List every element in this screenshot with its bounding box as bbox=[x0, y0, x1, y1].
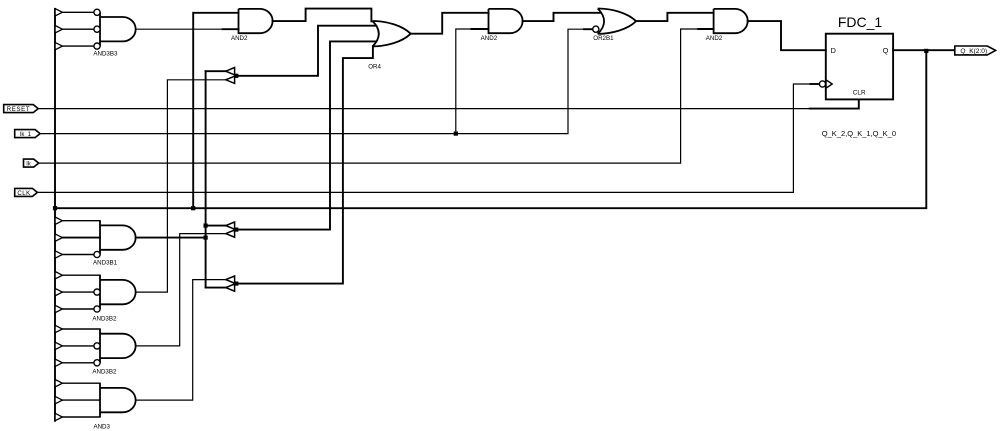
svg-text:CLK: CLK bbox=[17, 191, 30, 197]
svg-text:AND2: AND2 bbox=[481, 35, 498, 42]
svg-text:RESET: RESET bbox=[7, 107, 31, 113]
svg-text:Q: Q bbox=[883, 46, 889, 55]
svg-text:D: D bbox=[831, 46, 836, 55]
svg-text:CLR: CLR bbox=[853, 89, 866, 96]
svg-text:Q_K(2:0): Q_K(2:0) bbox=[960, 48, 987, 55]
svg-text:AND3B2: AND3B2 bbox=[92, 369, 117, 376]
svg-text:AND2: AND2 bbox=[706, 35, 723, 42]
svg-text:lk_1: lk_1 bbox=[20, 132, 32, 138]
svg-text:AND3: AND3 bbox=[93, 423, 110, 430]
svg-text:OR4: OR4 bbox=[368, 64, 381, 71]
svg-text:OR2B1: OR2B1 bbox=[593, 35, 614, 42]
svg-text:FDC_1: FDC_1 bbox=[838, 14, 883, 30]
svg-text:AND2: AND2 bbox=[231, 35, 248, 42]
svg-text:AND3B3: AND3B3 bbox=[93, 51, 118, 58]
svg-text:AND3B1: AND3B1 bbox=[93, 260, 118, 267]
svg-text:Q_K_2,Q_K_1,Q_K_0: Q_K_2,Q_K_1,Q_K_0 bbox=[822, 129, 896, 138]
svg-text:AND3B2: AND3B2 bbox=[92, 316, 117, 323]
